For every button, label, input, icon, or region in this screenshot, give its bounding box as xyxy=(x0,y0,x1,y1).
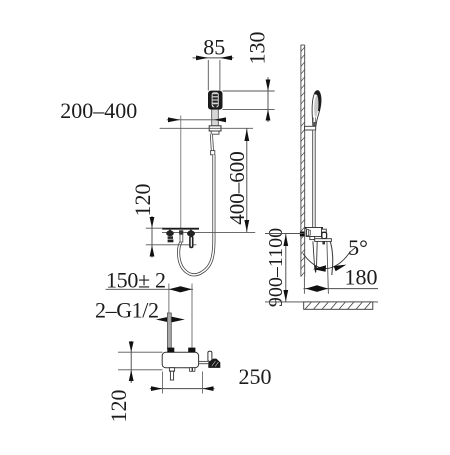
spout arm xyxy=(315,239,332,242)
dimension 85 right arrow xyxy=(220,56,232,61)
hose joint xyxy=(211,151,215,155)
svg-text:130: 130 xyxy=(244,32,269,65)
holder bracket side xyxy=(305,126,316,130)
dimension 250 right arrow xyxy=(203,386,214,391)
tick line bottom of head xyxy=(223,108,275,110)
tick line at valve height xyxy=(265,233,304,235)
spout bracket below body xyxy=(310,237,315,240)
rod side view xyxy=(312,130,314,228)
dimension 120 top arrow xyxy=(129,342,134,352)
svg-text:120: 120 xyxy=(130,184,155,217)
valve front handle side xyxy=(322,229,327,232)
tick line top of head xyxy=(223,90,275,92)
tick line 120 bottom xyxy=(146,244,197,246)
tilted extension line (spout reach) xyxy=(327,241,329,293)
dimension 130 top arrow xyxy=(266,80,271,92)
dimension 900-1100 top arrow xyxy=(283,234,288,246)
floor hatched strip xyxy=(304,302,373,309)
hose upper segment xyxy=(211,134,212,151)
outlet below body xyxy=(169,368,174,372)
dimension 400-600 vertical line xyxy=(246,128,248,232)
extension line left of 85 xyxy=(207,60,209,91)
center outlet front xyxy=(179,230,183,234)
svg-text:250: 250 xyxy=(239,364,272,389)
black inlet square on wall xyxy=(300,232,304,237)
tick line body bottom xyxy=(118,369,163,371)
5 degree arc xyxy=(303,247,356,268)
handle stem top view xyxy=(199,360,209,362)
svg-text:400–600: 400–600 xyxy=(225,151,249,225)
handle pivot xyxy=(208,351,212,361)
dimension 900-1100 vertical line xyxy=(285,234,287,302)
tick line valve top xyxy=(146,227,163,229)
left knob front xyxy=(168,229,171,231)
dimension 150+-2 double arrow xyxy=(169,286,192,292)
svg-text:85: 85 xyxy=(203,34,225,59)
right inlet post xyxy=(188,348,195,353)
dimension 120 front top arrow xyxy=(150,217,155,228)
slide-bar bracket xyxy=(209,126,221,131)
dimension 900-1100 bottom arrow xyxy=(283,290,288,301)
valve body side xyxy=(305,227,323,229)
dimension 130 vertical line xyxy=(267,77,269,122)
dimension 250 left arrow xyxy=(151,386,163,391)
dimension 400-600 top arrow xyxy=(244,129,249,141)
dimension 150+-2 line xyxy=(106,288,193,290)
spout tube xyxy=(313,241,317,272)
wall band xyxy=(300,45,302,277)
dimension 200-400 right arrow xyxy=(214,117,226,122)
wall face extension to 180 xyxy=(303,277,305,294)
dimension 250 line xyxy=(150,388,215,390)
floor line xyxy=(265,301,378,303)
valve plate front xyxy=(162,228,199,230)
dimension 180 double arrow xyxy=(306,285,328,292)
tick line body top xyxy=(118,351,163,353)
hose long segment and loop xyxy=(179,155,214,275)
dimension 200-400 line xyxy=(167,119,224,121)
extension line right inlet xyxy=(191,284,193,348)
dimension 400-600 bottom arrow xyxy=(244,220,249,232)
dimension 120 top view vertical line xyxy=(130,341,132,383)
5 degree left arrowhead xyxy=(313,265,326,271)
svg-text:2–G1/2: 2–G1/2 xyxy=(95,298,159,323)
reference line at bracket (top of 400-600) xyxy=(160,127,253,129)
svg-text:5°: 5° xyxy=(348,235,368,260)
extension line 250 left xyxy=(162,372,164,394)
svg-text:900–1100: 900–1100 xyxy=(265,228,287,307)
riser pipe top view xyxy=(167,313,171,349)
5 degree right arrowhead xyxy=(334,265,347,272)
extension line left inlet xyxy=(168,284,170,314)
valve centerline extension xyxy=(180,116,182,229)
dimension 85 left arrow xyxy=(196,56,208,61)
dimension 120 front vertical line xyxy=(151,216,153,258)
dimension 120 front bottom arrow xyxy=(150,245,155,256)
dimension 200-400 left arrow xyxy=(168,117,180,122)
small ports bottom edge xyxy=(190,368,192,372)
body top view xyxy=(162,352,198,367)
dimension 130 bottom arrow xyxy=(266,109,271,120)
reference line at valve (bottom of 400-600) xyxy=(162,231,255,233)
hand shower side view xyxy=(312,91,321,126)
wall hatching xyxy=(301,47,305,277)
dimension 85 line xyxy=(193,57,234,59)
extension line 250 right xyxy=(202,372,204,394)
handle below head xyxy=(211,110,213,126)
dimension 180 line xyxy=(304,288,379,290)
hose side view xyxy=(330,241,332,275)
right knob front xyxy=(189,229,192,231)
shower head front xyxy=(208,91,223,110)
svg-text:200–400: 200–400 xyxy=(60,98,137,123)
extension line right of 85 xyxy=(219,60,221,91)
svg-text:120: 120 xyxy=(106,390,131,423)
svg-text:180: 180 xyxy=(345,264,378,289)
2-G1/2 double arrow xyxy=(156,316,185,322)
left inlet post xyxy=(167,348,174,353)
dimension 120 bottom arrow xyxy=(129,370,134,381)
handle grip (dark) xyxy=(208,359,220,368)
